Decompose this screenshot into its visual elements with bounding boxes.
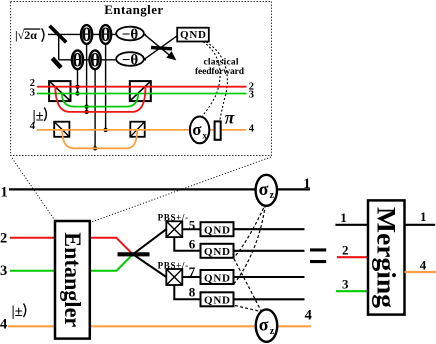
Merging box [368,200,405,314]
svg-text:1: 1 [420,209,427,224]
svg-text:σ: σ [259,314,269,334]
wire mode 3 (green, bottom) [10,254,133,270]
wire row1 to mixer [144,34,175,59]
svg-text:3: 3 [342,276,349,291]
svg-text:classical: classical [204,58,239,68]
wire v2 from phase P1 [86,42,88,112]
pi phase plate [215,121,221,139]
node dot v3-orangeU [93,146,97,150]
svg-text:7: 7 [189,264,196,279]
svg-text:Entangler: Entangler [104,2,163,17]
feedforward dashed QND7 to sigma-z top [234,205,265,285]
beamsplitter BS1 [50,26,67,43]
mirror M1 [52,58,61,67]
beamsplitter square BS-R (modes 2,3) [130,81,151,101]
svg-text:feedforward: feedforward [195,67,245,77]
wire v1 from phase P3 [77,66,79,94]
wire PBS1 to QND5 [182,228,200,230]
svg-text:Merging: Merging [372,207,401,308]
wire PBS2 down to QND8 [174,285,200,299]
feedforward dashed QND6 to sigma-z top [234,203,266,257]
Entangler box (bottom) [55,221,90,339]
svg-text:2: 2 [0,231,7,247]
QND detector 8 [201,292,234,306]
svg-text:Entangler: Entangler [60,232,85,327]
label |pm> (top box) [33,108,47,125]
wire merging input 3 (green) [336,290,368,292]
svg-text:2: 2 [342,243,349,258]
QND detector 7 [201,270,234,284]
svg-text:PBS+/-: PBS+/- [158,260,189,270]
sigma-z corrector bottom [256,309,277,341]
wire orange U loop [62,131,137,149]
svg-text:x: x [202,131,207,141]
wire row1 (upper arm) [48,33,146,35]
wire mode 2 (red, bottom) [10,238,133,255]
svg-text:π: π [225,108,235,128]
svg-text:4: 4 [0,317,7,333]
wire mode 2 (red, top box) [37,86,247,88]
input label |sqrt(2)alpha> [15,28,44,42]
phase shifter P4 theta [90,50,101,71]
wire PBS1 down to QND6 [174,237,200,251]
wire QND8 output [234,298,305,300]
svg-text:1: 1 [340,210,347,225]
svg-text:QND: QND [180,29,206,41]
svg-text:1: 1 [303,176,310,192]
zoom indicator line left [12,158,55,221]
wire QND6 output [234,250,305,252]
svg-text:|±: |± [33,109,44,125]
wire mode 3 (green, top box) [37,93,247,95]
svg-text:5: 5 [189,218,196,233]
wire v3 from phase P4 [94,66,96,148]
label classical feedforward [195,58,245,78]
wire PBS2 to QND7 [182,276,200,278]
beamsplitter bar BS2 [151,48,172,49]
svg-text:z: z [270,190,275,201]
svg-text:QND: QND [204,295,230,307]
svg-text:θ: θ [73,50,83,71]
node dot v4-orange [103,128,107,132]
beamsplitter square BS-L4 (mode 4) [54,122,69,137]
svg-text:1: 1 [1,184,8,200]
feedforward dashed QND6 to sigma-z bottom [234,259,262,312]
zoom indicator line right [90,157,271,223]
feedforward dashed QND8 to sigma-z bottom [235,306,262,312]
wire merging input 2 (red) [337,256,368,258]
wire merging output 4 (orange) [405,271,436,273]
svg-text:θ: θ [101,25,111,46]
phase shifter P2 theta [100,25,111,46]
svg-text:z: z [270,326,275,337]
svg-text:|√2α: |√2α [15,28,37,42]
wire vertical BS1 to mirror [58,34,60,59]
QND detector (top) [177,28,209,42]
svg-text:QND: QND [204,246,230,258]
wire row2 to QND [144,36,177,60]
svg-text:−θ: −θ [122,27,139,43]
wire mode 4 (orange, top box) [37,129,246,131]
sigma-x corrector [190,116,209,143]
QND detector 6 [201,244,234,258]
svg-text:4: 4 [305,308,312,324]
wire merging input 1 [335,224,368,226]
arrowhead output beam [166,51,176,60]
node dot v2-greenU [84,104,88,108]
wire mode 1 (bottom) [9,188,310,190]
svg-text:|±: |± [12,304,23,320]
svg-text:6: 6 [189,236,196,251]
svg-text:QND: QND [204,225,230,237]
beamsplitter square BS-L (modes 2,3) [49,81,70,101]
label |pm> (bottom) [12,304,26,321]
svg-text:3: 3 [0,263,7,279]
wire merging output 1 [405,224,436,226]
svg-text:σ: σ [192,120,202,139]
phase shifter P3 theta [72,50,83,71]
beamsplitter square BS-R4 (mode 4) [130,122,144,137]
sigma-z corrector top [256,175,277,206]
svg-text:8: 8 [189,284,196,299]
svg-text:θ: θ [90,50,100,71]
svg-text:3: 3 [30,88,35,99]
wire row2 (lower arm) [59,59,146,61]
phase shifter P1 theta [81,25,92,46]
wire green U loop [62,94,138,106]
wire v4 from phase P2 [105,42,107,130]
wire QND7 output [234,276,305,278]
svg-text:PBS+/-: PBS+/- [158,212,189,222]
dashed zoom box (Entangler detail) [11,2,272,156]
feedforward dashed curve to sigma-x [203,42,221,116]
equals sign [310,248,326,263]
svg-text:4: 4 [249,124,255,135]
PBS1 (+/-) [166,221,182,237]
node dot v1-green [75,91,79,95]
svg-text:σ: σ [259,179,269,199]
svg-text:θ: θ [82,25,92,46]
node dot v2-redU [84,110,88,114]
svg-text:QND: QND [204,272,230,284]
QND detector 5 [201,222,234,236]
wire black diag to PBS1 [133,229,166,254]
wire mode 4 (orange, bottom) [8,325,311,327]
wire QND5 output [234,228,305,230]
wire black diag to PBS2 [133,254,166,277]
PBS2 (+/-) [166,269,182,285]
svg-text:−θ: −θ [122,52,139,68]
phase shifter P6 minus-theta [116,52,144,68]
phase shifter P5 minus-theta [116,27,144,43]
beamsplitter bar BS3 (bottom mixer) [118,252,150,256]
feedforward dashed curve to pi [206,42,227,121]
svg-text:3: 3 [249,90,254,101]
svg-text:4: 4 [420,257,427,272]
node dot v1-red [75,85,79,89]
wire red U loop [55,88,145,112]
